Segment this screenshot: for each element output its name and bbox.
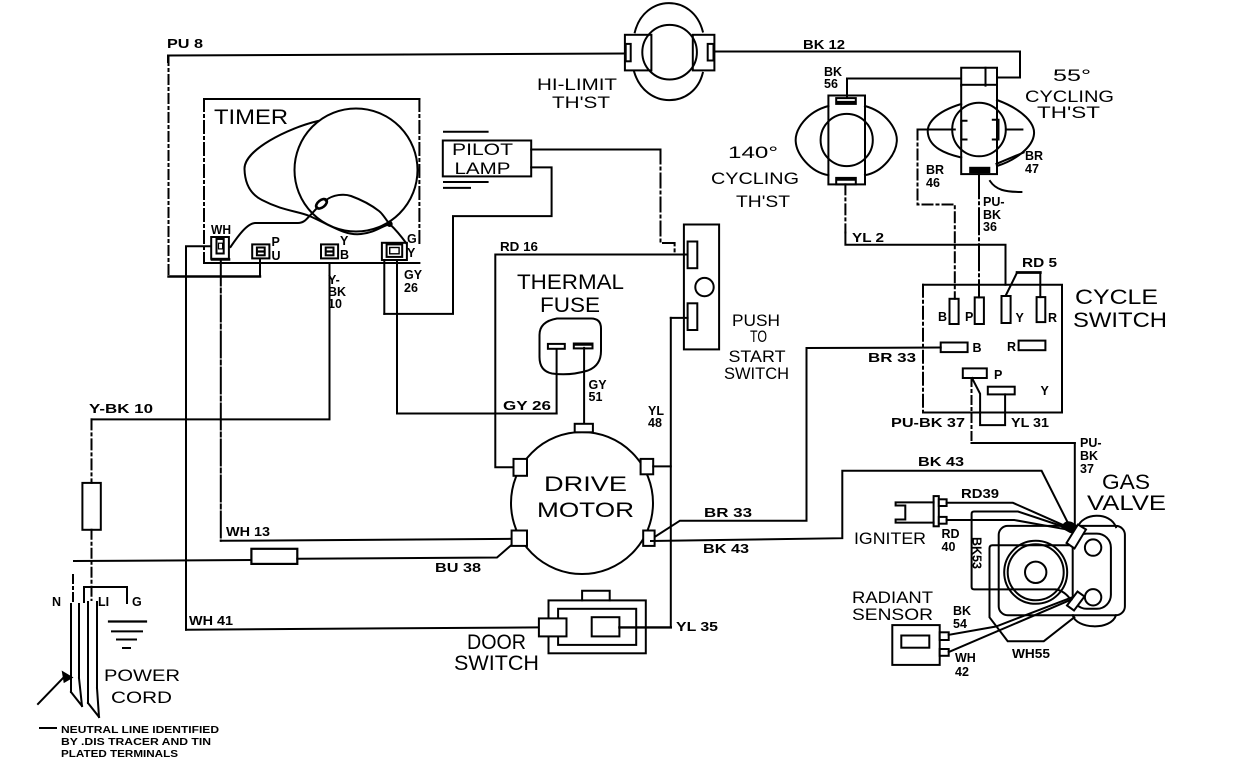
svg-text:RADIANT: RADIANT: [852, 589, 933, 607]
svg-text:BR 33: BR 33: [704, 506, 752, 520]
svg-text:YL 31: YL 31: [1011, 416, 1049, 430]
svg-text:TH'ST: TH'ST: [1037, 104, 1100, 122]
svg-text:POWER: POWER: [104, 667, 180, 685]
drive motor circle: [511, 432, 653, 574]
wire RD 16: [495, 255, 687, 468]
note dash: [40, 727, 56, 729]
svg-text:LI: LI: [98, 595, 109, 609]
svg-text:Y: Y: [1041, 384, 1050, 398]
radiant sensor box: [892, 625, 939, 665]
igniter body: [934, 496, 939, 526]
power cord LI blade: [88, 602, 99, 717]
wire GY 26 (gray) from G-Y terminal routing: [397, 314, 557, 414]
leader line BR 47: [997, 153, 1024, 164]
timer box: [204, 99, 419, 263]
gas valve top bump: [1078, 516, 1116, 527]
svg-text:36: 36: [983, 220, 997, 234]
svg-text:WH55: WH55: [1012, 647, 1050, 661]
svg-text:26: 26: [404, 281, 418, 295]
cycle switch pin P lower: [963, 368, 987, 378]
svg-text:WH 13: WH 13: [226, 525, 270, 539]
svg-text:BU 38: BU 38: [435, 561, 481, 575]
svg-text:TH'ST: TH'ST: [736, 193, 790, 211]
wire RD 40 to gas valve: [947, 520, 1067, 530]
cycle switch pin R top: [1037, 297, 1046, 322]
wire PU 8 (top horizontal to HI-LIMIT): [168, 54, 625, 63]
timer cam follower oval: [314, 197, 328, 210]
svg-text:WH: WH: [955, 651, 976, 665]
hi-limit thermostat: [625, 3, 714, 100]
wire motor right-upper to YL48 rail: [653, 465, 671, 467]
wire BK 43 from motor to gas valve: [651, 471, 1070, 541]
gas valve body: [999, 526, 1125, 615]
svg-text:SWITCH: SWITCH: [1073, 309, 1167, 332]
svg-text:PILOT: PILOT: [452, 141, 513, 159]
svg-text:BK: BK: [953, 604, 971, 618]
svg-text:START: START: [729, 348, 786, 366]
svg-text:NEUTRAL LINE IDENTIFIED: NEUTRAL LINE IDENTIFIED: [61, 724, 219, 736]
svg-text:BY .DIS TRACER AND TIN: BY .DIS TRACER AND TIN: [61, 736, 211, 748]
svg-text:HI-LIMIT: HI-LIMIT: [537, 76, 617, 94]
door switch inner box: [558, 609, 636, 645]
wire Y-BK 10 horizontal: [92, 263, 330, 419]
push to start button circle: [695, 278, 713, 296]
svg-text:BK53: BK53: [970, 537, 984, 569]
timer follower wire right (to G-Y terminal): [326, 195, 407, 244]
wire GY 26 from fuse left terminal: [556, 349, 558, 413]
gas valve terminal ear top: [1067, 525, 1087, 549]
wire RD39 to gas valve: [947, 503, 1067, 527]
power cord N blade: [71, 604, 82, 706]
svg-text:SWITCH: SWITCH: [454, 652, 539, 675]
svg-text:BR: BR: [1025, 149, 1043, 163]
door switch left terminal: [539, 618, 567, 636]
cycle switch pin P top: [975, 297, 984, 324]
timer terminal WH: [211, 237, 229, 259]
door switch top bump: [582, 591, 610, 601]
svg-text:BK 12: BK 12: [803, 38, 845, 52]
wire BK 12 (HI-LIMIT to 55 cycling thst): [714, 52, 1020, 78]
thermal fuse terminal left: [548, 344, 565, 349]
gas valve mounting hole top: [1085, 539, 1101, 555]
svg-text:YL 35: YL 35: [676, 620, 718, 634]
radiant sensor pin top: [940, 632, 949, 640]
svg-text:47: 47: [1025, 162, 1039, 176]
svg-text:RD 5: RD 5: [1022, 256, 1057, 270]
motor terminal left-lower: [512, 531, 527, 546]
wire BU 38 left end: [74, 560, 251, 561]
svg-text:PU-: PU-: [1080, 436, 1102, 450]
door switch contact: [592, 617, 620, 636]
wire G-Y terminal drop: [396, 262, 398, 314]
wire BK 56 to 55 deg thst: [847, 79, 961, 98]
leader line PU-BK 36: [990, 181, 1021, 192]
wire YL 2 from 140 thst to cycle switch: [845, 184, 1005, 284]
svg-text:IGNITER: IGNITER: [854, 530, 926, 548]
svg-text:CYCLE: CYCLE: [1075, 286, 1158, 309]
gas valve solenoid circle: [1008, 544, 1064, 600]
wire pilot lamp top-right to push-to-start: [531, 149, 660, 151]
svg-text:CORD: CORD: [111, 689, 172, 707]
svg-text:N: N: [52, 595, 61, 609]
svg-text:42: 42: [955, 665, 969, 679]
gas valve solenoid inner circle: [1025, 562, 1046, 583]
gas valve mounting plate: [1073, 534, 1111, 609]
svg-text:DRIVE: DRIVE: [544, 473, 627, 496]
svg-text:54: 54: [953, 617, 967, 631]
svg-text:56: 56: [824, 77, 838, 91]
svg-text:GAS: GAS: [1102, 471, 1150, 494]
motor terminal left-upper: [514, 459, 528, 476]
55 deg cycling thermostat: [928, 68, 1034, 174]
wire left long vertical (to WH 41): [185, 247, 187, 630]
svg-text:P: P: [994, 368, 1002, 382]
wire YL 48 rail vertical: [670, 318, 672, 628]
igniter pin top: [939, 499, 947, 506]
timer cam circle: [295, 109, 418, 232]
svg-text:48: 48: [648, 416, 662, 430]
svg-text:140°: 140°: [728, 144, 778, 162]
wire pilot lamp bottom-right routed to G-Y line: [384, 167, 551, 314]
svg-text:55°: 55°: [1053, 67, 1091, 85]
svg-text:Y: Y: [407, 246, 416, 260]
wire WH 42 sensor to valve: [949, 600, 1072, 653]
wire GY 51 from fuse right terminal to motor top: [583, 348, 585, 424]
push to start top terminal: [688, 242, 698, 269]
svg-text:TH'ST: TH'ST: [552, 94, 610, 112]
gas valve bottom bump: [1073, 615, 1116, 626]
svg-text:VALVE: VALVE: [1087, 492, 1166, 515]
thermal fuse body: [540, 319, 602, 375]
gas valve wire junction blob: [1061, 521, 1080, 533]
wire BU 38 right segment to motor: [297, 545, 512, 559]
wire 55 thst right middle stub: [1006, 129, 1023, 131]
cycle switch pin Y top: [1002, 296, 1011, 323]
svg-text:MOTOR: MOTOR: [537, 499, 634, 522]
svg-text:P: P: [965, 310, 973, 324]
power cord N blade dash above: [72, 575, 74, 602]
resistor on BU 38 line: [251, 549, 297, 564]
motor terminal right-upper: [641, 459, 654, 474]
svg-text:BK: BK: [1080, 449, 1098, 463]
svg-text:WH: WH: [211, 223, 231, 237]
wire P-U terminal drop: [259, 259, 261, 277]
svg-text:40: 40: [942, 540, 956, 554]
arrow pointing at neutral blade: [38, 673, 72, 705]
svg-text:Y: Y: [1016, 311, 1025, 325]
140 deg cycling thermostat: [796, 96, 897, 185]
wire WH 41 horizontal to door switch: [186, 627, 539, 629]
svg-text:TIMER: TIMER: [214, 106, 288, 129]
cycle switch box: [923, 285, 1062, 413]
wire BK 54 sensor to valve: [949, 598, 1072, 635]
svg-text:PU-: PU-: [983, 195, 1005, 209]
wire PU-BK 36 vertical from 55 thst bottom to P pin: [978, 172, 980, 297]
timer terminal Y-B: [321, 244, 338, 258]
timer follower wire left (to WH terminal): [231, 208, 318, 248]
wire dash-dot down to capacitor box: [91, 419, 93, 483]
power cord bracket to ground: [84, 587, 127, 603]
wire WH terminal stub: [186, 246, 211, 276]
svg-text:U: U: [272, 249, 281, 263]
igniter fork: [896, 502, 934, 522]
svg-text:B: B: [340, 248, 349, 262]
wire P pin to Y lower pin jumper: [972, 378, 1005, 425]
wire WH-13 vertical from WH terminal: [220, 260, 222, 541]
ground symbol: [109, 622, 146, 649]
svg-text:SWITCH: SWITCH: [724, 365, 789, 383]
svg-text:FUSE: FUSE: [540, 294, 600, 317]
svg-text:YL 2: YL 2: [852, 231, 884, 245]
wire BR 33 from motor to B pin: [655, 348, 941, 538]
svg-text:THERMAL: THERMAL: [517, 271, 624, 294]
svg-text:DOOR: DOOR: [467, 631, 526, 654]
svg-text:B: B: [938, 310, 947, 324]
timer terminal G-Y: [382, 243, 407, 260]
pilot lamp box: [443, 132, 531, 188]
radiant sensor slot: [901, 636, 929, 648]
push to start bottom terminal: [688, 303, 698, 330]
wire BK53 jumper between valve coil terminals: [972, 512, 1071, 600]
wire timer feed horizontal: [169, 275, 261, 277]
svg-text:R: R: [1048, 311, 1057, 325]
wire RD 5 jumper Y to R: [1006, 273, 1040, 298]
gas valve shadow edge: [990, 545, 1075, 641]
timer follower junction dot: [387, 221, 393, 227]
svg-text:Y-BK 10: Y-BK 10: [89, 402, 153, 416]
cycle switch pin B mid: [941, 343, 968, 353]
wire 55 thst left middle (BR 46 tap): [918, 129, 955, 131]
svg-text:LAMP: LAMP: [455, 160, 511, 178]
gas valve mounting hole bottom: [1085, 589, 1101, 605]
svg-text:B: B: [973, 341, 982, 355]
capacitor box on neutral line: [82, 483, 100, 530]
push to start switch body: [684, 225, 719, 350]
door switch outer box: [549, 600, 646, 653]
svg-text:BK 43: BK 43: [703, 542, 749, 556]
gas valve solenoid outer circle: [1004, 541, 1067, 604]
svg-text:GY: GY: [404, 268, 423, 282]
wire PU-BK 37 from P pin down and right to gas valve: [972, 378, 1075, 527]
svg-text:GY 26: GY 26: [503, 399, 551, 413]
timer cam lobe: [244, 121, 389, 234]
igniter pin bottom: [939, 517, 947, 524]
svg-text:Y: Y: [340, 234, 349, 248]
svg-text:PLATED TERMINALS: PLATED TERMINALS: [61, 748, 178, 760]
wire G terminal drop: [383, 260, 385, 314]
wire YL 35: [619, 626, 670, 628]
svg-text:46: 46: [926, 176, 940, 190]
svg-text:CYCLING: CYCLING: [711, 170, 799, 188]
svg-text:TO: TO: [750, 328, 767, 346]
svg-text:WH 41: WH 41: [189, 614, 233, 628]
svg-text:RD39: RD39: [961, 487, 999, 501]
svg-text:G: G: [132, 595, 142, 609]
svg-text:37: 37: [1080, 462, 1094, 476]
cycle switch pin Y lower: [988, 387, 1015, 395]
cycle switch pin B top: [950, 299, 959, 324]
motor terminal right-lower: [643, 531, 654, 546]
svg-text:RD: RD: [942, 527, 960, 541]
wire WH 13 horizontal to motor: [221, 539, 512, 541]
wire dash-dot below capacitor box: [91, 530, 93, 600]
cycle switch pin R mid: [1019, 341, 1046, 351]
svg-text:BK 43: BK 43: [918, 455, 964, 469]
svg-text:BR 33: BR 33: [868, 351, 916, 365]
svg-text:51: 51: [589, 390, 603, 404]
wire BR 46 dash-dot from 55 thst to cycle switch B pin: [918, 130, 955, 299]
timer terminal P-U: [252, 244, 269, 258]
wire bottom terminal to YL48 rail: [671, 317, 688, 319]
radiant sensor pin bottom: [940, 649, 949, 656]
svg-text:10: 10: [328, 297, 342, 311]
svg-text:RD 16: RD 16: [500, 240, 538, 254]
svg-text:R: R: [1007, 340, 1016, 354]
svg-text:PU-BK 37: PU-BK 37: [891, 416, 965, 430]
svg-text:PU 8: PU 8: [167, 37, 203, 51]
svg-text:G: G: [407, 232, 417, 246]
gas valve terminal ear bottom: [1067, 592, 1085, 611]
svg-text:SENSOR: SENSOR: [852, 606, 933, 624]
wire left rail dash-dot from PU 8 down to timer feed: [168, 56, 170, 277]
svg-text:BR: BR: [926, 163, 944, 177]
motor terminal top: [575, 424, 593, 433]
thermal fuse terminal right: [574, 344, 593, 349]
svg-text:P: P: [272, 235, 280, 249]
